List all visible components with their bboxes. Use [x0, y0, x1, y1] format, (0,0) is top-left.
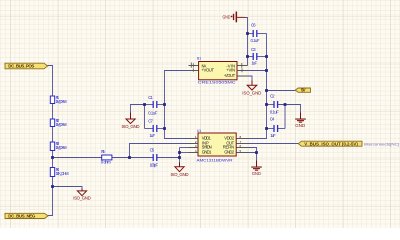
svg-text:1uF: 1uF	[150, 133, 156, 138]
svg-text:ISO_GND: ISO_GND	[122, 124, 140, 129]
svg-text:0.1uF: 0.1uF	[270, 110, 279, 115]
svg-text:0 ohm: 0 ohm	[101, 160, 112, 165]
svg-text:GND2: GND2	[224, 149, 235, 154]
svg-text:5V: 5V	[301, 88, 306, 93]
svg-text:0.1uF: 0.1uF	[148, 110, 157, 115]
svg-text:GND: GND	[295, 123, 306, 128]
svg-text:C7: C7	[148, 118, 153, 123]
svg-text:1uF: 1uF	[270, 133, 276, 138]
svg-text:GND: GND	[252, 171, 262, 176]
svg-text:B1: B1	[197, 57, 201, 61]
svg-text:ISO_GND: ISO_GND	[73, 195, 91, 200]
svg-text:GND1: GND1	[202, 149, 212, 154]
svg-text:C2: C2	[270, 94, 275, 99]
svg-text:ISO_GND: ISO_GND	[171, 172, 189, 177]
svg-text:1M_OHM: 1M_OHM	[56, 99, 68, 104]
svg-text:GND: GND	[223, 14, 231, 19]
svg-text:ISO_GND: ISO_GND	[242, 90, 261, 95]
svg-text:+VOUT: +VOUT	[202, 68, 215, 73]
svg-text:0.1uF: 0.1uF	[251, 38, 260, 43]
svg-text:C5: C5	[150, 147, 155, 152]
svg-text:CRE1S0505MC: CRE1S0505MC	[198, 80, 236, 85]
svg-text:1uF: 1uF	[252, 61, 258, 66]
svg-text:C1: C1	[148, 95, 153, 100]
svg-text:C3: C3	[251, 47, 256, 52]
svg-text:V_BUS_ISO_OUT (0.2-5V): V_BUS_ISO_OUT (0.2-5V)	[304, 141, 358, 146]
svg-text:C6: C6	[251, 23, 256, 28]
svg-text:U1: U1	[197, 129, 201, 133]
svg-text:C4: C4	[270, 116, 275, 121]
svg-text:DC_BUS_NEG: DC_BUS_NEG	[8, 214, 36, 219]
svg-text:+VIN: +VIN	[226, 68, 235, 73]
svg-text:-VOUT: -VOUT	[224, 73, 236, 78]
svg-text:1M_OHM: 1M_OHM	[56, 145, 68, 150]
svg-text:100pF: 100pF	[150, 163, 159, 168]
svg-text:interconnects[NC]: interconnects[NC]	[364, 143, 399, 147]
svg-text:1M_OHM: 1M_OHM	[56, 122, 68, 127]
svg-text:AMC1311BDWVR: AMC1311BDWVR	[197, 158, 233, 163]
svg-text:10K_OHM: 10K_OHM	[56, 171, 70, 176]
svg-text:DC_BUS_POS: DC_BUS_POS	[8, 64, 34, 69]
